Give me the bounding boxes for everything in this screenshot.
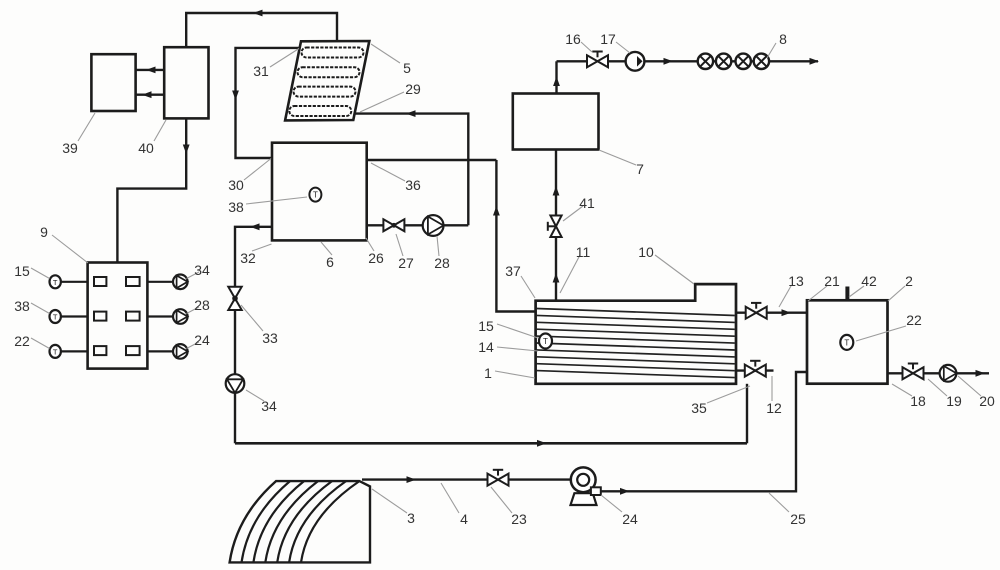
- svg-text:42: 42: [861, 273, 877, 289]
- svg-text:28: 28: [194, 297, 210, 313]
- wire 4: [362, 476, 488, 483]
- wire box 6 lower loop: [367, 224, 469, 226]
- leader to label 17: [616, 42, 630, 53]
- wire top loop: [186, 10, 337, 48]
- leader to label 30: [244, 159, 271, 181]
- wire riser to HX return: [354, 110, 468, 225]
- svg-text:5: 5: [403, 60, 411, 76]
- valve 13 line: [736, 309, 807, 316]
- svg-text:T: T: [53, 347, 58, 356]
- svg-text:32: 32: [240, 250, 256, 266]
- valve 33: [228, 287, 241, 310]
- tank 1 plates: [537, 309, 735, 378]
- wire 39-40 lower: [136, 91, 164, 98]
- wire tank drain: [746, 384, 748, 444]
- svg-text:14: 14: [478, 339, 494, 355]
- valve 41: [548, 216, 562, 238]
- svg-text:7: 7: [636, 161, 644, 177]
- leader to label 34: [187, 272, 200, 279]
- greenhouse arc 5: [277, 481, 332, 562]
- unit 9 cell r1c2: [126, 277, 140, 286]
- leader to label 8: [767, 43, 776, 58]
- leader to label 24 (pump): [601, 495, 622, 512]
- leader to label 25: [769, 493, 789, 512]
- leader to label 11: [560, 255, 580, 293]
- leader to label 18: [892, 384, 912, 396]
- leader to label 38 (box 6): [246, 197, 307, 204]
- coil tube 1: [302, 48, 364, 58]
- greenhouse arc 7: [301, 481, 359, 562]
- leader to label 1: [495, 371, 535, 378]
- check valve 17: [626, 52, 645, 71]
- leader to label 9: [52, 235, 88, 263]
- svg-text:36: 36: [405, 177, 421, 193]
- leader to label 33: [241, 305, 263, 331]
- svg-text:41: 41: [579, 195, 595, 211]
- svg-text:38: 38: [14, 298, 30, 314]
- wire 25: [601, 372, 807, 495]
- leader to label 41: [563, 206, 583, 221]
- svg-text:15: 15: [478, 318, 494, 334]
- svg-text:4: 4: [460, 511, 468, 527]
- coil tube 4: [289, 106, 351, 116]
- svg-text:33: 33: [262, 330, 278, 346]
- svg-text:1: 1: [484, 365, 492, 381]
- valve 23: [488, 470, 509, 486]
- pump 28 of unit 9: [147, 309, 187, 324]
- heat exchanger 5 outline: [285, 41, 369, 120]
- svg-text:17: 17: [600, 31, 616, 47]
- leader to label 23: [491, 487, 512, 513]
- thermometer 38: [309, 188, 321, 202]
- svg-text:9: 9: [40, 224, 48, 240]
- valve 27 dot: [392, 223, 397, 228]
- leader to label 28: [187, 307, 200, 314]
- svg-text:22: 22: [14, 333, 30, 349]
- svg-text:30: 30: [228, 177, 244, 193]
- leader to label 16: [581, 42, 592, 52]
- svg-text:T: T: [844, 338, 849, 347]
- svg-text:40: 40: [138, 140, 154, 156]
- svg-text:15: 15: [14, 263, 30, 279]
- wire 33 to pump 34: [234, 310, 236, 374]
- tank 2: [807, 300, 888, 383]
- svg-text:24: 24: [622, 511, 638, 527]
- pump 24: [571, 467, 601, 505]
- valve 26-27: [383, 219, 404, 231]
- svg-text:26: 26: [368, 250, 384, 266]
- svg-text:27: 27: [398, 255, 414, 271]
- wire valve 41 to tank 10: [553, 237, 560, 301]
- pump 34: [226, 374, 245, 393]
- wire 36: [367, 159, 497, 161]
- svg-text:T: T: [53, 313, 58, 322]
- unit 9 cell r1c1: [94, 277, 106, 286]
- svg-text:12: 12: [766, 400, 782, 416]
- leader to label 15: [31, 268, 50, 279]
- wire box 7 riser: [553, 61, 560, 93]
- leader to label 26: [366, 238, 374, 251]
- tank 1 outline: [536, 284, 736, 384]
- valve 12 line: [736, 369, 774, 371]
- svg-text:22: 22: [906, 312, 922, 328]
- svg-text:21: 21: [824, 273, 840, 289]
- leader to label 29: [360, 92, 404, 112]
- wire 23 to pump 24: [509, 478, 571, 480]
- sensor circle 38: [50, 310, 88, 323]
- valve 16: [587, 52, 608, 68]
- pump 34 of unit 9: [147, 275, 187, 290]
- svg-text:29: 29: [405, 81, 421, 97]
- leader to label 22: [31, 338, 50, 349]
- wire pump 34 down to long return: [234, 393, 236, 444]
- svg-text:31: 31: [253, 63, 269, 79]
- valve 13: [746, 303, 767, 319]
- svg-text:20: 20: [979, 393, 995, 409]
- svg-text:T: T: [543, 337, 548, 346]
- leader to label 14: [497, 347, 538, 351]
- svg-text:11: 11: [576, 244, 591, 260]
- wire HX to box 6 left: [232, 48, 300, 158]
- leader to label 10: [655, 255, 694, 284]
- wire long bottom return: [235, 440, 747, 447]
- leader to label 20: [958, 376, 981, 396]
- svg-text:16: 16: [565, 31, 581, 47]
- unit 9 box: [88, 263, 148, 369]
- pump 19: [940, 365, 957, 382]
- stub 42: [845, 287, 849, 301]
- leader to label 38: [31, 303, 50, 314]
- coil tube 2: [298, 67, 360, 77]
- sensor circle 15: [50, 275, 88, 288]
- sensor circle 22: [50, 345, 88, 358]
- svg-text:2: 2: [905, 273, 913, 289]
- leader to label 22 (tank 2): [856, 326, 906, 341]
- svg-text:34: 34: [194, 262, 210, 278]
- leader to label 13: [779, 286, 791, 307]
- rotameter 8 group: [698, 54, 769, 69]
- leader to label 28: [437, 236, 439, 256]
- wire box 7 down pipe 11: [553, 150, 560, 216]
- greenhouse 3 outline: [230, 481, 370, 562]
- leader to label 2: [888, 286, 905, 301]
- svg-text:38: 38: [228, 199, 244, 215]
- svg-text:23: 23: [511, 511, 527, 527]
- box 40: [164, 47, 208, 118]
- svg-text:35: 35: [691, 400, 707, 416]
- box 6: [272, 143, 367, 241]
- leader to label 36: [371, 163, 405, 181]
- svg-text:25: 25: [790, 511, 806, 527]
- leader to label 12: [771, 376, 773, 401]
- leader to label 27: [396, 234, 403, 256]
- greenhouse arc 6: [289, 481, 346, 562]
- coil tube 3: [294, 87, 356, 97]
- leader to label 6: [321, 242, 332, 255]
- leader to label 5: [371, 44, 400, 63]
- svg-text:19: 19: [946, 393, 962, 409]
- box 39: [91, 54, 135, 111]
- leader to label 4: [441, 483, 459, 513]
- valve 18: [903, 364, 924, 380]
- unit 9 cell r2c1: [94, 312, 106, 321]
- wire outlet header: [557, 58, 820, 65]
- svg-text:18: 18: [910, 393, 926, 409]
- leader to label 32: [252, 244, 272, 251]
- wire 37: [493, 160, 536, 312]
- unit 9 cell r3c1: [94, 346, 106, 355]
- greenhouse arc 3: [253, 481, 304, 562]
- unit 9 cell r3c2: [126, 346, 140, 355]
- leader to label 24: [187, 342, 200, 349]
- svg-text:28: 28: [434, 255, 450, 271]
- box 7: [513, 94, 599, 150]
- thermometer 15: [539, 334, 552, 349]
- unit 9 cell r2c2: [126, 312, 140, 321]
- svg-text:34: 34: [261, 398, 277, 414]
- valve 12: [745, 361, 766, 377]
- leader to label 7: [599, 150, 636, 165]
- svg-text:6: 6: [326, 254, 334, 270]
- wire 39-40 upper: [136, 67, 164, 74]
- svg-text:39: 39: [62, 140, 78, 156]
- leader to label 3: [372, 489, 407, 513]
- svg-text:8: 8: [779, 31, 787, 47]
- wire 40 down to unit 9: [117, 118, 189, 262]
- pump 24 of unit 9: [147, 344, 187, 359]
- leader to label 31: [270, 49, 299, 68]
- leader to label 19: [928, 379, 947, 396]
- svg-text:T: T: [313, 191, 318, 200]
- leader to label 42: [849, 286, 864, 297]
- leader to label 15 (tank 1): [497, 324, 538, 338]
- svg-text:24: 24: [194, 332, 210, 348]
- leader to label 35: [707, 386, 750, 403]
- leader to label 21: [808, 286, 827, 301]
- thermometer 22: [840, 335, 853, 350]
- svg-text:37: 37: [505, 263, 521, 279]
- greenhouse arc 2: [242, 481, 291, 562]
- pump 28: [423, 215, 444, 236]
- leader to label 37: [521, 276, 535, 298]
- leader to label 34 (pump): [246, 390, 264, 401]
- svg-text:13: 13: [788, 273, 804, 289]
- tank 2 outlet wire: [888, 370, 990, 377]
- leader to label 40: [154, 120, 166, 141]
- svg-text:10: 10: [638, 244, 654, 260]
- svg-text:3: 3: [407, 510, 415, 526]
- greenhouse arc 4: [265, 481, 318, 562]
- svg-text:T: T: [53, 278, 58, 287]
- wire 32: [235, 223, 272, 286]
- leader to label 39: [78, 113, 95, 141]
